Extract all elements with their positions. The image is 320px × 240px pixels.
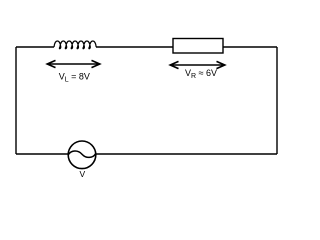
wire bottom-left segment [16, 153, 68, 155]
arrow VR (double-headed) [170, 61, 224, 68]
svg-text:V: V [80, 169, 86, 179]
wire left side [15, 47, 17, 154]
wire right side [276, 47, 278, 154]
wire top-right segment [223, 46, 277, 48]
wire bottom-right segment [96, 153, 277, 155]
wire top-middle segment [96, 46, 173, 48]
wire top-left segment [16, 46, 54, 48]
AC source V [68, 141, 96, 169]
resistor R1 [173, 39, 223, 54]
sine wave inside source [68, 151, 95, 157]
svg-text:VL = 8V: VL = 8V [59, 71, 90, 83]
arrow VL (double-headed) [47, 60, 99, 67]
svg-text:VR ≈ 6V: VR ≈ 6V [185, 68, 217, 80]
inductor L1 [54, 41, 96, 49]
